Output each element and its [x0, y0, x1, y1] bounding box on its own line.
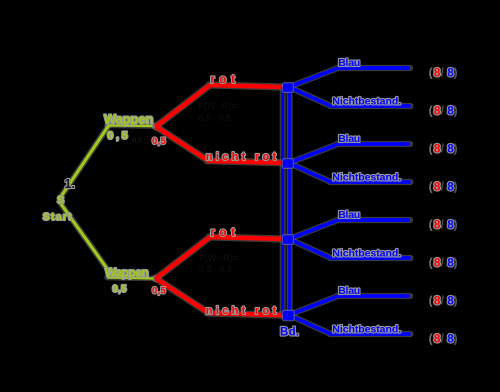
svg-text:P(W∩R)=: P(W∩R)=: [199, 253, 238, 263]
leaf 8 outcome label: [429, 331, 458, 345]
svg-text:(: (: [429, 179, 433, 193]
halo underlay for all wires: [60, 68, 411, 334]
wire: node B1 upper branch to leaf 1: [289, 68, 410, 87]
wire: left vertical bus connecting nodes B1-B4: [281, 87, 284, 315]
svg-text:(: (: [429, 65, 433, 79]
wire: node B3 lower branch to leaf 6: [289, 239, 411, 258]
wire: green root lower branch: [61, 204, 108, 270]
svg-text:P(W∩R)=: P(W∩R)=: [198, 101, 237, 111]
svg-text:0,5 · 0,5: 0,5 · 0,5: [198, 113, 231, 123]
wire: red node R1 upper branch to node B1: [156, 85, 284, 127]
wire: node B2 upper branch to leaf 3: [289, 144, 410, 163]
wire: right vertical bus connecting nodes B1-B4: [288, 87, 291, 315]
svg-text:(: (: [429, 293, 433, 307]
svg-text:Nichtbestand.: Nichtbestand.: [332, 324, 401, 336]
svg-text:Blau: Blau: [338, 57, 360, 69]
wire: green root upper branch: [60, 125, 109, 198]
leaf 2 outcome label: [429, 103, 458, 117]
svg-text:): ): [454, 65, 458, 79]
svg-text:S: S: [57, 195, 64, 207]
node B2: [282, 159, 293, 169]
svg-text:nicht rot: nicht rot: [206, 305, 280, 317]
svg-text:): ): [454, 141, 458, 155]
svg-text:0,5: 0,5: [107, 130, 130, 142]
svg-text:): ): [454, 331, 458, 345]
svg-text:Nichtbestand.: Nichtbestand.: [332, 172, 401, 184]
leaf 3 outcome label: [429, 141, 458, 155]
wire: green lower branch horizontal segment under word: [107, 276, 153, 279]
svg-text:): ): [454, 179, 458, 193]
svg-text:0,5: 0,5: [152, 136, 167, 147]
svg-text:Nichtbestand.: Nichtbestand.: [332, 96, 401, 108]
node B3: [282, 235, 293, 245]
wire: red node R1 lower branch to node B2: [156, 126, 284, 163]
leaf 5 outcome label: [429, 217, 458, 231]
svg-text:(: (: [429, 331, 433, 345]
svg-text:nicht rot: nicht rot: [206, 151, 280, 163]
leaf 7 outcome label: [429, 293, 458, 307]
svg-text:·0,5: ·0,5: [130, 138, 142, 145]
svg-text:Start: Start: [43, 212, 73, 223]
wire: node B2 lower branch to leaf 4: [289, 163, 411, 182]
wire: node B4 lower branch to leaf 8: [289, 315, 411, 334]
leaf 1 outcome label: [429, 65, 458, 79]
leaf labels: 8 rows: [429, 65, 458, 345]
svg-text:1.: 1.: [65, 177, 75, 191]
svg-text:): ): [454, 217, 458, 231]
svg-text:(: (: [429, 217, 433, 231]
svg-text:Blau: Blau: [338, 133, 360, 145]
wire: red node R2 upper branch to node B3: [156, 237, 284, 279]
svg-text:Bd.: Bd.: [280, 326, 299, 338]
svg-text:(: (: [429, 103, 433, 117]
wire: node B4 upper branch to leaf 7: [289, 296, 410, 315]
label: faint probability product annotations (near-black): [130, 101, 238, 274]
svg-text:Blau: Blau: [338, 209, 360, 221]
node B1: [282, 83, 293, 93]
wire: node B1 lower branch to leaf 2: [289, 87, 411, 106]
svg-text:0,5: 0,5: [152, 286, 167, 297]
leaf 6 outcome label: [429, 255, 458, 269]
svg-text:(: (: [429, 141, 433, 155]
node B4: [282, 310, 294, 320]
wire: green upper branch horizontal segment under word: [107, 124, 153, 127]
svg-text:): ): [454, 293, 458, 307]
svg-text:rot: rot: [210, 74, 239, 86]
svg-text:): ): [454, 103, 458, 117]
leaf 4 outcome label: [429, 179, 458, 193]
svg-text:rot: rot: [210, 227, 239, 239]
svg-text:Nichtbestand.: Nichtbestand.: [332, 248, 401, 260]
wire: red node R2 lower branch to node B4: [156, 278, 284, 315]
svg-text:0,5: 0,5: [112, 284, 127, 295]
wire: node B3 upper branch to leaf 5: [289, 220, 410, 239]
svg-text:): ): [454, 255, 458, 269]
svg-text:(: (: [429, 255, 433, 269]
svg-text:Wappen: Wappen: [104, 112, 153, 127]
svg-text:0,5 · 0,5: 0,5 · 0,5: [199, 264, 232, 274]
svg-text:Wappen: Wappen: [105, 265, 148, 279]
svg-text:Blau: Blau: [338, 285, 360, 297]
